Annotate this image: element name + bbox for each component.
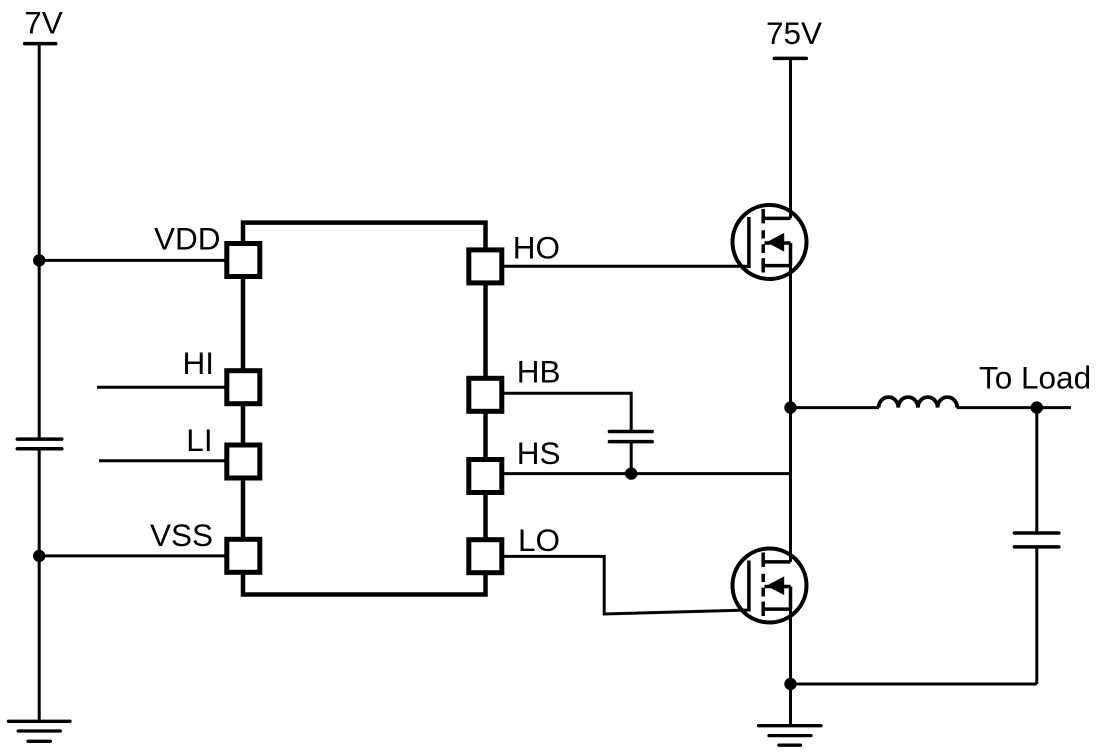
svg-text:VDD: VDD <box>154 221 221 257</box>
svg-text:LO: LO <box>518 522 560 558</box>
svg-text:7V: 7V <box>24 5 63 41</box>
svg-text:75V: 75V <box>766 15 822 51</box>
svg-text:HO: HO <box>513 230 560 266</box>
svg-text:HB: HB <box>517 354 561 390</box>
svg-text:LI: LI <box>186 422 212 458</box>
svg-text:HS: HS <box>517 435 561 471</box>
svg-text:To Load: To Load <box>979 360 1091 396</box>
svg-text:HI: HI <box>183 345 215 381</box>
svg-text:VSS: VSS <box>150 517 213 553</box>
